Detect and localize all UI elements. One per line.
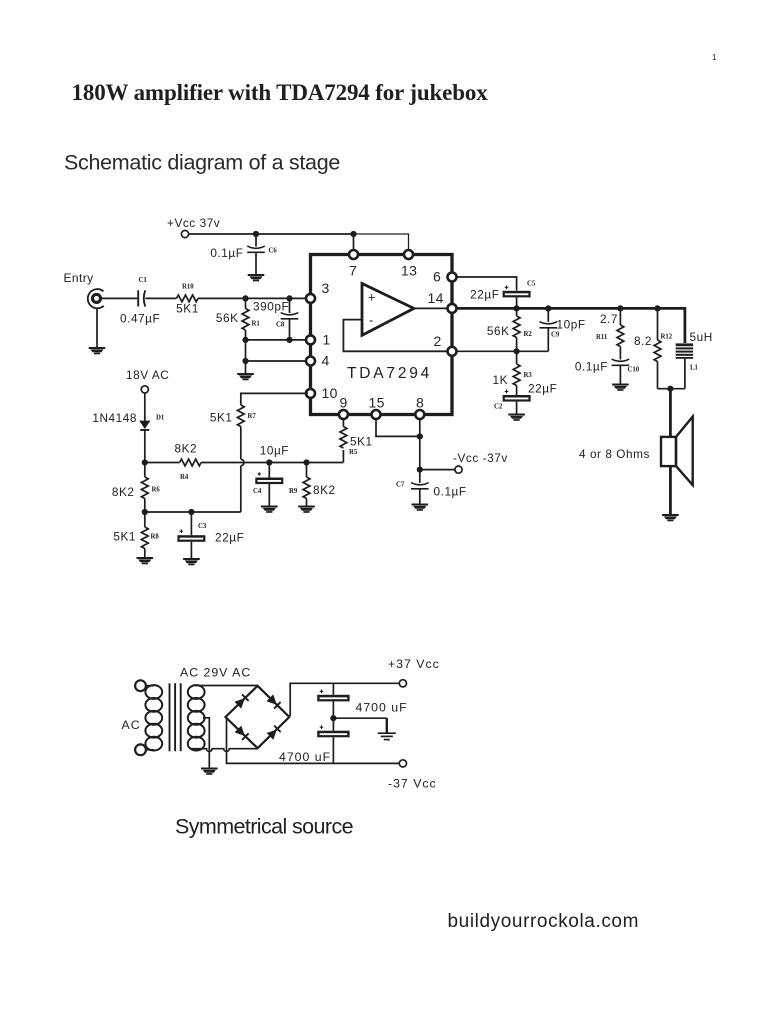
svg-text:0.1µF: 0.1µF [575, 360, 608, 374]
diode bridge bottom-right [267, 725, 281, 739]
svg-text:5uH: 5uH [690, 330, 713, 344]
svg-text:R6: R6 [152, 487, 161, 494]
resistor R10 [177, 295, 199, 302]
resistor R9 8K2 [306, 463, 308, 478]
svg-text:C10: C10 [628, 367, 640, 374]
svg-text:8K2: 8K2 [112, 485, 135, 499]
svg-text:C4: C4 [253, 488, 262, 495]
svg-text:R3: R3 [524, 372, 533, 379]
resistor R5 5K1 [342, 450, 344, 463]
svg-text:18V AC: 18V AC [126, 368, 169, 382]
svg-text:7: 7 [349, 263, 357, 279]
wire terminal stubs [146, 685, 154, 687]
resistor R1 56K [245, 298, 247, 308]
terminal -37 [399, 760, 406, 767]
pin 9 [339, 410, 348, 419]
node junction R1 input [242, 295, 248, 301]
svg-text:180W amplifier with TDA7294 fo: 180W amplifier with TDA7294 for jukebox [72, 80, 489, 105]
node junction R12 on output [654, 305, 660, 311]
svg-text:AC 29V AC: AC 29V AC [180, 666, 251, 680]
wire center tap [203, 718, 209, 768]
wire secondary bottom with hops [190, 749, 258, 752]
wire pin2 row [457, 350, 549, 352]
svg-text:0.1µF: 0.1µF [210, 246, 243, 260]
wire bridge right corner up to +rail [290, 683, 399, 716]
node junction R6/R8 [142, 509, 148, 515]
wire pin10 to R7 [241, 393, 308, 405]
svg-text:8K2: 8K2 [174, 442, 197, 456]
node junction R1 pin1 [242, 337, 248, 343]
diode bridge bottom-left [235, 726, 249, 740]
svg-text:56K: 56K [216, 311, 239, 325]
svg-text:4: 4 [322, 353, 330, 369]
svg-text:4700 uF: 4700 uF [279, 750, 331, 764]
wire pin8 down [419, 419, 421, 470]
wire crossover hop R7 [241, 459, 244, 465]
capacitor C11 4700uF top [332, 683, 334, 695]
capacitor C8 390pF [289, 298, 291, 313]
wire pin1 row [246, 339, 309, 341]
svg-text:8: 8 [416, 395, 424, 411]
resistor R3 1K [516, 351, 518, 364]
svg-text:5K1: 5K1 [176, 302, 199, 316]
svg-text:C1: C1 [139, 277, 148, 284]
resistor R2 56K [516, 308, 518, 316]
diode D1 1N4148 [139, 421, 150, 429]
svg-text:+37 Vcc: +37 Vcc [388, 657, 440, 671]
pin 14 [448, 304, 457, 313]
wire to -Vcc terminal [420, 469, 455, 471]
terminal 18V AC [141, 386, 148, 393]
pin 7 [349, 250, 358, 259]
node junction -Vcc/C7 [417, 467, 423, 473]
node junction speaker feed [667, 386, 673, 392]
svg-text:C3: C3 [198, 523, 207, 530]
svg-text:56K: 56K [487, 324, 510, 338]
wire [145, 297, 176, 299]
diode bridge top-right [266, 694, 280, 708]
node junction C4 [266, 459, 272, 465]
svg-text:15: 15 [369, 395, 385, 411]
svg-text:R10: R10 [182, 284, 194, 291]
svg-text:AC: AC [122, 718, 141, 732]
svg-text:1N4148: 1N4148 [92, 411, 137, 425]
svg-text:D1: D1 [156, 415, 165, 422]
svg-text:22µF: 22µF [528, 382, 557, 396]
node junction D1/R4/R6 [142, 459, 148, 465]
svg-text:R9: R9 [289, 488, 298, 495]
node junction C8 input [286, 295, 292, 301]
svg-text:4700 uF: 4700 uF [356, 701, 408, 715]
wire pin7 stub [353, 234, 355, 250]
svg-text:TDA7294: TDA7294 [347, 365, 432, 382]
svg-text:5K1: 5K1 [113, 530, 136, 544]
pin 4 [306, 357, 315, 366]
capacitor C7 0.1uF [419, 470, 421, 483]
wire D1 to node [144, 430, 146, 463]
svg-text:8K2: 8K2 [313, 483, 336, 497]
wire pin15 down [376, 419, 420, 436]
transformer secondary coil [188, 685, 205, 699]
ground C2 [508, 414, 525, 421]
node junction R2/R3 [514, 348, 520, 354]
capacitor C3 22uF [190, 512, 192, 535]
svg-text:390pF: 390pF [253, 300, 289, 314]
pin 15 [372, 410, 381, 419]
svg-text:10pF: 10pF [557, 318, 586, 332]
svg-text:L1: L1 [690, 365, 699, 372]
svg-text:R2: R2 [524, 331, 533, 338]
node junction C8 pin1 [286, 337, 292, 343]
wire output row (thick) [457, 308, 685, 343]
svg-text:5K1: 5K1 [350, 435, 373, 449]
op-amp U1 [362, 284, 414, 336]
wire bias row [145, 462, 180, 464]
svg-text:8.2: 8.2 [634, 334, 652, 348]
svg-text:-: - [369, 313, 373, 328]
ground C10 [612, 384, 629, 391]
svg-text:5K1: 5K1 [210, 411, 233, 425]
ground speaker [662, 514, 679, 521]
pin 13 [404, 250, 413, 259]
wire to speaker (thick) [669, 389, 672, 437]
pin 10 [306, 389, 315, 398]
node junction C5/R2 on output [514, 305, 520, 311]
pin 2 [448, 347, 457, 356]
svg-text:C6: C6 [269, 248, 278, 255]
svg-text:R4: R4 [180, 474, 189, 481]
wire bridge left corner down to -rail [227, 718, 400, 764]
wire C6 lead [255, 234, 257, 247]
wire to ground [333, 717, 386, 719]
svg-text:22µF: 22µF [215, 531, 244, 545]
wire to D1 [144, 393, 146, 421]
transformer primary coil [145, 685, 162, 699]
rectifier bridge diamond [226, 686, 290, 748]
capacitor C6 [247, 246, 265, 252]
node junction C3 [188, 509, 194, 515]
svg-text:buildyourrockola.com: buildyourrockola.com [448, 911, 640, 932]
svg-text:R5: R5 [349, 449, 358, 456]
node junction pin15/pin8 [417, 433, 423, 439]
svg-text:6: 6 [433, 269, 441, 285]
svg-text:C9: C9 [551, 332, 560, 339]
svg-text:-37 Vcc: -37 Vcc [388, 777, 437, 791]
inductor L1 5uH [676, 343, 693, 358]
svg-text:R7: R7 [248, 413, 257, 420]
wire speaker to ground (thick) [669, 466, 672, 514]
svg-text:10µF: 10µF [260, 444, 289, 458]
wire jack to ground [96, 308, 98, 348]
transformer T1 primary terminals [135, 680, 146, 691]
svg-text:13: 13 [401, 263, 417, 279]
svg-text:C5: C5 [527, 281, 536, 288]
wire pin4 row [246, 360, 309, 362]
wire to pin3 [198, 297, 308, 299]
node junction R11 on output [617, 305, 623, 311]
resistor R8 5K1 [144, 512, 146, 527]
svg-text:Symmetrical source: Symmetrical source [175, 815, 353, 839]
node +Vcc rail [189, 233, 354, 235]
ground entry [89, 347, 106, 354]
svg-text:22µF: 22µF [470, 288, 499, 302]
pin 3 [306, 294, 315, 303]
svg-text:2.7: 2.7 [600, 312, 618, 326]
capacitor C5 22uF [503, 291, 531, 298]
resistor R12 8.2 [657, 308, 659, 340]
svg-text:2: 2 [434, 333, 442, 349]
capacitor C9 10pF [547, 308, 549, 322]
resistor R6 8K2 [144, 463, 146, 478]
pin 1 [306, 335, 315, 344]
diode bridge top-left [234, 694, 248, 708]
svg-text:Schematic diagram of a stage: Schematic diagram of a stage [64, 151, 340, 175]
wire low row [145, 511, 241, 513]
node junction pin7 [350, 231, 356, 237]
node junction C9 on output [545, 305, 551, 311]
svg-text:R12: R12 [661, 334, 673, 341]
svg-text:14: 14 [428, 290, 444, 306]
IC U1 TDA7294 box [311, 255, 453, 415]
svg-text:1: 1 [712, 53, 717, 62]
svg-text:Entry: Entry [64, 271, 94, 285]
svg-text:0.1µF: 0.1µF [434, 485, 467, 499]
wire input row [101, 297, 138, 299]
ground C6 [248, 274, 265, 281]
ground bars [378, 718, 396, 739]
svg-text:R1: R1 [252, 321, 261, 328]
capacitor C2 22uF [503, 395, 531, 402]
node junction R9 [303, 459, 309, 465]
node junction C6 [253, 231, 259, 237]
svg-text:R11: R11 [596, 334, 608, 341]
wire down to gnd node [245, 340, 247, 361]
svg-text:C8: C8 [276, 322, 285, 329]
ground pin1/4 [237, 373, 254, 380]
svg-text:C7: C7 [396, 482, 405, 489]
resistor R4 8K2 [180, 459, 202, 466]
speaker LS1 [661, 437, 676, 466]
svg-text:+Vcc 37v: +Vcc 37v [167, 216, 220, 230]
svg-text:10: 10 [322, 385, 338, 401]
svg-text:3: 3 [322, 280, 330, 296]
wire pin6 to C5 [457, 277, 517, 291]
wire feedback [343, 320, 447, 352]
terminal +Vcc [181, 230, 188, 237]
wire output bottom node [658, 388, 685, 390]
node junction pin4 ground [242, 358, 248, 364]
capacitor C1 [137, 290, 139, 306]
pin 6 [448, 273, 457, 282]
svg-text:C2: C2 [494, 404, 503, 411]
svg-text:+: + [368, 291, 375, 305]
wire to pin13 [354, 234, 409, 250]
svg-text:-Vcc -37v: -Vcc -37v [453, 451, 508, 465]
node junction filter caps midpoint [330, 715, 336, 721]
svg-text:1K: 1K [492, 373, 508, 387]
wire op-amp out to pin14 [414, 307, 447, 309]
svg-text:0.47µF: 0.47µF [120, 312, 160, 326]
resistor R11 2.7 [619, 308, 621, 325]
terminal +37 [399, 680, 406, 687]
ground center tap [201, 768, 218, 775]
transformer core [169, 683, 171, 751]
svg-text:4 or 8 Ohms: 4 or 8 Ohms [579, 447, 650, 461]
svg-text:R8: R8 [151, 534, 160, 541]
pin 8 [415, 410, 424, 419]
capacitor C4 10uF [268, 463, 270, 478]
svg-text:9: 9 [340, 395, 348, 411]
capacitor C12 4700uF bottom [317, 731, 349, 738]
wire secondary top to bridge [196, 685, 257, 687]
capacitor C10 0.1uF [612, 359, 630, 365]
resistor R7 5K1 [237, 405, 244, 427]
svg-text:1: 1 [323, 332, 331, 348]
